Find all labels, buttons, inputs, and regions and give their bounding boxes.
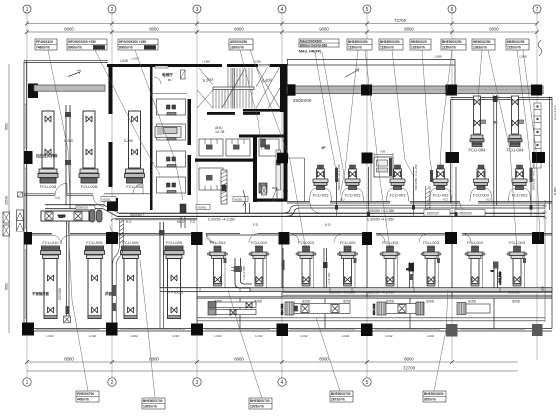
svg-text:B1: B1 bbox=[168, 78, 172, 82]
svg-text:BHE500X700: BHE500X700 bbox=[250, 399, 270, 403]
branch up from duct bbox=[243, 190, 250, 213]
vertical texts south risers bbox=[242, 265, 331, 285]
svg-text:1363m³/h: 1363m³/h bbox=[473, 46, 487, 50]
svg-text:+4X-1.500: +4X-1.500 bbox=[242, 265, 246, 280]
tag BHE 3 bbox=[410, 39, 431, 50]
svg-text:LC02: LC02 bbox=[214, 334, 222, 338]
svg-text:LCB8: LCB8 bbox=[202, 60, 210, 64]
svg-text:V.D: V.D bbox=[486, 198, 492, 202]
svg-text:600-X03: 600-X03 bbox=[280, 303, 284, 315]
svg-text:5.290: 5.290 bbox=[124, 139, 133, 143]
south rooms top wall bbox=[24, 234, 552, 235]
hatched riser right block bbox=[426, 186, 431, 212]
svg-text:1F: 1F bbox=[321, 145, 326, 150]
wall between FCU rooms bbox=[109, 66, 113, 114]
window tags bottom bbox=[46, 334, 434, 338]
tag BHE 2 bbox=[379, 39, 403, 50]
svg-text:+4X1.500: +4X1.500 bbox=[498, 271, 502, 285]
elevator lobby bbox=[150, 66, 187, 94]
vertical small texts near north risers bbox=[337, 164, 536, 190]
tag BHE 5 bbox=[472, 39, 495, 50]
svg-text:BHE500X600: BHE500X600 bbox=[424, 392, 444, 396]
svg-text:LC02: LC02 bbox=[385, 334, 393, 338]
small duct tag boxes on corridor bbox=[101, 197, 248, 210]
corridor north wall left part bbox=[24, 194, 150, 196]
svg-text:V.0 800X1: V.0 800X1 bbox=[168, 291, 184, 295]
core right wall bbox=[284, 64, 288, 201]
svg-text:8000: 8000 bbox=[5, 123, 9, 130]
row B black columns bbox=[24, 151, 545, 164]
svg-text:600X20: 600X20 bbox=[77, 206, 88, 210]
right edge louver ladder bbox=[534, 103, 541, 168]
svg-text:2873m³/h: 2873m³/h bbox=[331, 398, 345, 402]
svg-text:1305m³/h: 1305m³/h bbox=[143, 405, 157, 409]
lobby south alcove partitions bbox=[272, 157, 371, 202]
window lines on exterior walls bbox=[24, 104, 525, 330]
AHU room equip in core bbox=[155, 127, 181, 138]
grid line 4 bbox=[281, 13, 283, 378]
tag BHE 1 bbox=[347, 39, 372, 50]
svg-text:BHE500X700: BHE500X700 bbox=[331, 392, 351, 396]
upper right duct pair bbox=[283, 205, 545, 216]
svg-text:8000: 8000 bbox=[234, 356, 244, 361]
svg-text:1263m³/h: 1263m³/h bbox=[411, 46, 425, 50]
riser shaft in core bbox=[221, 170, 227, 204]
svg-text:8000m³/h: 8000m³/h bbox=[68, 46, 82, 50]
corridor north wall right part bbox=[287, 202, 552, 204]
svg-text:K.D: K.D bbox=[325, 223, 331, 227]
window tags top bbox=[131, 55, 526, 64]
svg-text:8000m³/h(X4)+030: 8000m³/h(X4)+030 bbox=[300, 44, 327, 48]
svg-text:LC02: LC02 bbox=[172, 334, 180, 338]
svg-text:BHE500X250: BHE500X250 bbox=[380, 40, 400, 44]
left riser duct (top block) bbox=[65, 105, 71, 209]
grid line 3 bbox=[196, 13, 198, 378]
texts in FCU rooms bbox=[35, 126, 225, 158]
left row-A wall chunk bbox=[28, 84, 38, 99]
svg-text:8000: 8000 bbox=[64, 356, 74, 361]
south room dividers bbox=[112, 235, 452, 329]
svg-text:B 000: B 000 bbox=[553, 187, 557, 195]
svg-text:500X250 +4-1.150: 500X250 +4-1.150 bbox=[337, 164, 341, 190]
tag BHE 4 bbox=[441, 39, 466, 50]
svg-text:A A A A A A: A A A A A A bbox=[553, 105, 557, 120]
svg-text:1150m³/h: 1150m³/h bbox=[442, 46, 456, 50]
FCU-008 no.3 bbox=[125, 111, 145, 189]
svg-text:500X50 +: 500X50 + bbox=[130, 213, 145, 217]
svg-text:5: 5 bbox=[366, 380, 369, 386]
svg-text:8000: 8000 bbox=[234, 27, 244, 32]
grid line 1 bbox=[26, 13, 28, 378]
svg-text:8000: 8000 bbox=[5, 283, 9, 290]
tag WP wide bbox=[67, 39, 107, 50]
damper blobs on right corridor ducts bbox=[335, 206, 533, 216]
tag PF bbox=[35, 39, 57, 50]
door arcs corridor bbox=[52, 183, 471, 244]
left exterior wall bbox=[24, 61, 27, 331]
corridor south wall mid segment bbox=[111, 219, 197, 221]
svg-text:FCU-003: FCU-003 bbox=[210, 240, 226, 245]
top-left gray duct bbox=[34, 85, 105, 91]
svg-text:FCU-003: FCU-003 bbox=[467, 240, 483, 245]
south FCU connection pipes bbox=[224, 256, 527, 288]
right block top wall bbox=[451, 98, 553, 204]
stair bottom wall bbox=[207, 112, 235, 115]
shaft right wall bbox=[280, 64, 284, 112]
svg-text:LC02: LC02 bbox=[300, 334, 308, 338]
svg-text:FCU-003: FCU-003 bbox=[509, 240, 525, 245]
svg-text:F.D: F.D bbox=[283, 189, 289, 193]
upper flight treads bbox=[228, 68, 252, 87]
svg-text:2: 2 bbox=[111, 380, 114, 386]
small dark boxes near core right wall bbox=[261, 139, 281, 195]
FCU-004 no.1 bbox=[469, 96, 487, 153]
svg-text:LC02: LC02 bbox=[342, 334, 350, 338]
svg-text:500X00 +4-3.600: 500X00 +4-3.600 bbox=[329, 291, 355, 295]
north medium niches bbox=[310, 189, 531, 202]
svg-text:不锈钢风管: 不锈钢风管 bbox=[32, 291, 50, 296]
svg-text:1150m³/h: 1150m³/h bbox=[507, 46, 521, 50]
svg-text:LC02: LC02 bbox=[130, 334, 138, 338]
svg-text:HB500X25: HB500X25 bbox=[411, 40, 427, 44]
svg-text:V.3: V.3 bbox=[55, 196, 60, 200]
right south riser bbox=[491, 262, 503, 289]
svg-text:FCU-003: FCU-003 bbox=[251, 240, 267, 245]
restroom stall ticks bbox=[205, 139, 244, 190]
svg-text:9000: 9000 bbox=[319, 27, 329, 32]
svg-text:FCU-005: FCU-005 bbox=[122, 240, 139, 245]
svg-text:电梯厅: 电梯厅 bbox=[162, 72, 173, 77]
bottom band horizontal FCU room4 bbox=[280, 302, 350, 315]
svg-text:FCU-003: FCU-003 bbox=[340, 240, 356, 245]
svg-text:5: 5 bbox=[366, 7, 369, 13]
8258 dimension labels bbox=[214, 299, 520, 303]
left entrance louver boxes bbox=[3, 192, 24, 236]
svg-text:4: 4 bbox=[281, 7, 284, 13]
landing bar bbox=[213, 87, 254, 90]
svg-text:FCU-008: FCU-008 bbox=[40, 184, 57, 189]
bottom band dividers bbox=[240, 298, 494, 329]
svg-text:L0B8: L0B8 bbox=[519, 55, 526, 59]
svg-text:8000: 8000 bbox=[319, 356, 329, 361]
K-labels under duct bbox=[126, 220, 331, 227]
svg-text:2: 2 bbox=[111, 7, 114, 13]
svg-text:8258: 8258 bbox=[512, 299, 520, 303]
svg-text:445m³/h: 445m³/h bbox=[77, 398, 89, 402]
vertical riser between FCU-004 bbox=[493, 95, 498, 205]
svg-text:FCU-008: FCU-008 bbox=[126, 184, 143, 189]
svg-text:LC02: LC02 bbox=[89, 334, 97, 338]
svg-text:8000: 8000 bbox=[404, 356, 414, 361]
svg-text:1: 1 bbox=[26, 380, 29, 386]
svg-text:8000: 8000 bbox=[64, 27, 74, 32]
upper connector duct bbox=[45, 205, 103, 209]
svg-text:4: 4 bbox=[281, 380, 284, 386]
svg-text:FCU-003: FCU-003 bbox=[423, 240, 439, 245]
svg-text:LC02: LC02 bbox=[255, 334, 263, 338]
svg-text:FCU-003: FCU-003 bbox=[512, 193, 528, 198]
svg-text:6.30X50 +4-3.350: 6.30X50 +4-3.350 bbox=[208, 217, 235, 221]
svg-text:8000m³/h: 8000m³/h bbox=[119, 46, 133, 50]
misc labels bbox=[293, 98, 312, 103]
row D black columns bbox=[22, 323, 373, 337]
north medium risers bbox=[335, 167, 533, 205]
left vertical dim text bbox=[5, 123, 9, 290]
svg-text:1: 1 bbox=[26, 7, 29, 13]
svg-text:HP2000X200 +250: HP2000X200 +250 bbox=[119, 40, 146, 44]
row A black columns bbox=[288, 84, 543, 95]
svg-text:L0X8: L0X8 bbox=[120, 59, 128, 63]
top dimension lines bbox=[9, 24, 537, 334]
svg-text:FCU-005: FCU-005 bbox=[86, 240, 103, 245]
svg-text:900X20: 900X20 bbox=[508, 291, 520, 295]
top-centre block outline bbox=[287, 60, 455, 96]
svg-text:7460m³/h: 7460m³/h bbox=[36, 46, 50, 50]
svg-text:7: 7 bbox=[536, 7, 539, 13]
svg-text:+000X20: +000X20 bbox=[458, 211, 472, 215]
right exterior wall bbox=[550, 97, 553, 329]
svg-text:FCU-010: FCU-010 bbox=[42, 240, 59, 245]
left room duct with dampers bbox=[41, 211, 89, 221]
svg-text:FCU-008: FCU-008 bbox=[81, 184, 98, 189]
svg-text:1150m³/h: 1150m³/h bbox=[348, 46, 362, 50]
elevator right wall bbox=[188, 99, 192, 145]
right edge dimension line bbox=[543, 200, 547, 322]
svg-text:+4-3.700: +4-3.700 bbox=[327, 272, 331, 285]
svg-text:6: 6 bbox=[451, 7, 454, 13]
door gap in top wall bbox=[258, 64, 270, 68]
svg-text:FCU-003: FCU-003 bbox=[313, 193, 329, 198]
twin fan unit bbox=[90, 210, 96, 222]
svg-text:6.30X50 +4-3.950: 6.30X50 +4-3.950 bbox=[367, 217, 394, 221]
svg-text:987m³/h: 987m³/h bbox=[424, 398, 436, 402]
tag AE bbox=[229, 39, 253, 50]
svg-text:2500X00: 2500X00 bbox=[293, 98, 312, 103]
svg-text:LC02: LC02 bbox=[427, 334, 435, 338]
svg-text:LC02: LC02 bbox=[46, 334, 54, 338]
stringer bbox=[233, 68, 235, 109]
svg-text:风管: 风管 bbox=[105, 291, 112, 296]
svg-text:FCU-003: FCU-003 bbox=[298, 240, 314, 245]
svg-text:5.290: 5.290 bbox=[64, 139, 73, 143]
svg-text:加压送风机房: 加压送风机房 bbox=[35, 153, 58, 158]
svg-text:1305m³/h: 1305m³/h bbox=[250, 405, 264, 409]
grid bubbles top bbox=[23, 5, 541, 13]
room riser pipe down (x67) bbox=[64, 221, 71, 323]
svg-text:FCU-004: FCU-004 bbox=[507, 148, 525, 153]
black duct shaft bbox=[107, 198, 118, 211]
grid line 2 bbox=[111, 13, 113, 378]
bottom exterior wall bbox=[24, 329, 552, 332]
branch down at x181 bbox=[180, 204, 196, 228]
AHU equipment box in lobby bbox=[374, 150, 393, 178]
svg-text:3: 3 bbox=[196, 7, 199, 13]
svg-text:PF400X320: PF400X320 bbox=[36, 40, 53, 44]
svg-text:FCU-003: FCU-003 bbox=[382, 240, 398, 245]
svg-text:8258: 8258 bbox=[343, 299, 351, 303]
svg-text:8258: 8258 bbox=[386, 299, 394, 303]
bottom band horizontal FCU room3 bbox=[208, 302, 256, 316]
svg-text:K.D: K.D bbox=[126, 220, 132, 224]
svg-text:8258: 8258 bbox=[302, 299, 310, 303]
riser crossings bbox=[337, 205, 532, 216]
right edge vertical labels bbox=[553, 105, 557, 195]
svg-text:MAU. HR(FP): MAU. HR(FP) bbox=[299, 50, 322, 54]
bottom band horizontal FCU room5 bbox=[372, 302, 424, 315]
svg-text:HB500X250: HB500X250 bbox=[507, 40, 525, 44]
svg-text:900: 900 bbox=[541, 286, 545, 291]
svg-text:PH500X700: PH500X700 bbox=[77, 392, 94, 396]
svg-text:FCU-003: FCU-003 bbox=[390, 193, 406, 198]
grid line 6 bbox=[451, 13, 453, 360]
grid line 5 bbox=[366, 13, 368, 378]
duct size texts on main run bbox=[130, 209, 394, 221]
svg-text:FCU-004: FCU-004 bbox=[469, 148, 487, 153]
hatched riser next to shaft bbox=[113, 220, 124, 329]
svg-text:14.7B: 14.7B bbox=[215, 130, 225, 134]
grid line 7 bbox=[536, 13, 538, 360]
svg-text:600X20: 600X20 bbox=[427, 211, 439, 215]
row C black columns bbox=[24, 232, 544, 245]
top wall thick bbox=[107, 64, 222, 67]
jog diagonal bbox=[103, 205, 119, 217]
FCU-008 no.1 bbox=[38, 111, 58, 189]
svg-text:600-X03: 600-X03 bbox=[372, 303, 376, 315]
svg-text:F.D: F.D bbox=[190, 220, 196, 224]
break line bbox=[222, 70, 244, 108]
svg-text:72700: 72700 bbox=[403, 366, 416, 371]
stair texts bbox=[202, 77, 272, 84]
bottom dimension lines bbox=[27, 362, 518, 371]
shaft bottom wall bbox=[243, 109, 284, 112]
svg-text:1300m³/h: 1300m³/h bbox=[230, 46, 244, 50]
svg-text:WP2000X200 +250: WP2000X200 +250 bbox=[68, 40, 96, 44]
svg-text:L0B8: L0B8 bbox=[434, 55, 441, 59]
svg-text:500X250 +4-1.150: 500X250 +4-1.150 bbox=[414, 164, 418, 190]
side hatches bbox=[197, 68, 213, 108]
core left wall bbox=[150, 64, 153, 210]
svg-text:AE500X250: AE500X250 bbox=[230, 40, 247, 44]
svg-text:FCU-003: FCU-003 bbox=[345, 193, 361, 198]
tag HP wide bbox=[118, 39, 158, 50]
svg-text:600X0: 600X0 bbox=[198, 206, 207, 210]
row D gray columns bbox=[446, 324, 543, 337]
left riser 2 south bbox=[159, 222, 165, 329]
svg-text:消防排: 消防排 bbox=[145, 45, 155, 50]
main run to right bbox=[117, 213, 545, 216]
bottom band horizontal FCU room6 bbox=[457, 303, 490, 315]
svg-text:1150m³/h: 1150m³/h bbox=[380, 46, 394, 50]
tag BHE 6 bbox=[506, 39, 529, 50]
top-left exterior wall thin bbox=[24, 61, 108, 63]
svg-text:8000: 8000 bbox=[404, 27, 414, 32]
svg-text:8258: 8258 bbox=[468, 299, 476, 303]
svg-text:72700: 72700 bbox=[394, 18, 407, 23]
svg-text:-500X50 +4-3.350: -500X50 +4-3.350 bbox=[367, 209, 394, 213]
svg-text:F.D: F.D bbox=[253, 223, 259, 227]
svg-text:BHE500X250: BHE500X250 bbox=[442, 40, 462, 44]
svg-text:W2DL: W2DL bbox=[103, 198, 112, 202]
break squiggle top right bbox=[538, 40, 542, 56]
svg-text:FCU-005: FCU-005 bbox=[166, 240, 183, 245]
small tag boxes on duct right bbox=[424, 210, 485, 217]
svg-text:8000: 8000 bbox=[489, 27, 499, 32]
grid bubbles bottom bbox=[23, 378, 371, 386]
svg-text:V.D: V.D bbox=[443, 198, 449, 202]
north arrow symbol top-left room bbox=[68, 70, 81, 76]
svg-text:W2DL: W2DL bbox=[235, 198, 244, 202]
restroom boxes bbox=[199, 139, 322, 296]
svg-text:630X00 +4-3.400: 630X00 +4-3.400 bbox=[368, 291, 394, 295]
svg-text:V.D: V.D bbox=[340, 198, 346, 202]
lobby slash symbol bbox=[345, 69, 359, 78]
tag MAU big bbox=[299, 39, 339, 54]
svg-text:HB500X250: HB500X250 bbox=[473, 40, 491, 44]
svg-text:消防排: 消防排 bbox=[94, 45, 104, 50]
lower flight treads bbox=[213, 90, 252, 109]
FCU-008 no.2 bbox=[79, 111, 99, 189]
V.D labels bbox=[340, 198, 492, 202]
svg-text:25098: 25098 bbox=[5, 196, 9, 205]
svg-text:708: 708 bbox=[380, 150, 385, 154]
svg-text:8258: 8258 bbox=[426, 299, 434, 303]
south band inner wall y297 bbox=[197, 297, 552, 298]
svg-text:BHE500X250: BHE500X250 bbox=[348, 40, 368, 44]
restroom walls bbox=[239, 135, 284, 138]
FCU-004 no.2 bbox=[507, 96, 525, 153]
svg-text:8000: 8000 bbox=[149, 27, 159, 32]
double doors on south rooms wall bbox=[52, 235, 70, 244]
svg-text:BHE500X700: BHE500X700 bbox=[143, 399, 163, 403]
south risers with dampers bbox=[282, 248, 415, 290]
svg-text:250X98: 250X98 bbox=[58, 288, 62, 300]
L-elbow duct mid bbox=[231, 258, 252, 288]
svg-text:3: 3 bbox=[196, 380, 199, 386]
